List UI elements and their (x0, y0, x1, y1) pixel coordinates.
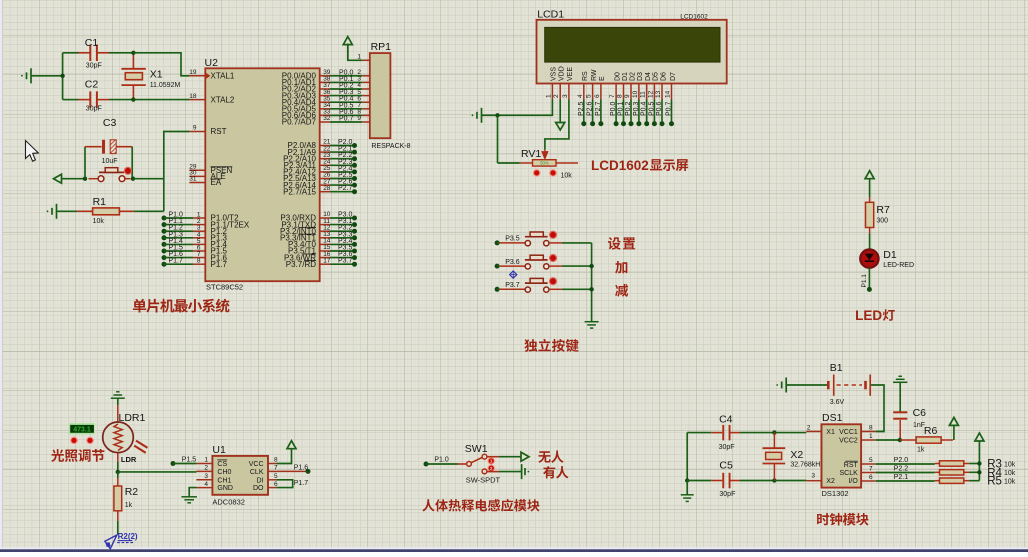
svg-text:P0.3: P0.3 (633, 101, 640, 116)
key button P3.5 (495, 240, 500, 245)
svg-text:5: 5 (274, 473, 278, 480)
pot RV1 interactive dots (533, 170, 540, 177)
wire P3.7 to key bus (562, 288, 592, 290)
svg-text:D5: D5 (653, 72, 660, 81)
resistor R1 (77, 210, 93, 212)
wire R1 to RST net (134, 210, 164, 212)
DS1 pin 1 VCC2 (861, 439, 876, 441)
adc U1 body (212, 456, 268, 495)
ground (battery) (785, 378, 787, 393)
svg-text:X2: X2 (826, 478, 835, 485)
U2 pin 23 P2.2/A10 with net label P2.2 (320, 158, 330, 160)
svg-text:P0.7: P0.7 (339, 116, 354, 123)
svg-text:SW-SPDT: SW-SPDT (466, 475, 501, 484)
svg-text:C3: C3 (103, 117, 117, 129)
svg-text:32.768kHz: 32.768kHz (790, 462, 824, 469)
svg-text:R6: R6 (924, 425, 938, 437)
capacitor C4 (687, 432, 711, 434)
svg-text:LCD1602: LCD1602 (680, 14, 708, 21)
U2 pin 35 P0.4/AD4 wire to RP1 pin 6 (320, 101, 330, 103)
U2 pin 19 XTAL1 (189, 75, 205, 77)
wire ground to C1/C2 branch (31, 75, 63, 77)
LCD wire net P0.4 (646, 100, 648, 124)
label light adjust (51, 449, 104, 462)
wire C5 to X2 node (740, 480, 774, 482)
overline PSEN (211, 166, 233, 168)
svg-text:6: 6 (869, 474, 873, 481)
ldr value display (69, 423, 95, 434)
wire C1 row (63, 52, 79, 54)
svg-text:XTAL1: XTAL1 (211, 72, 235, 81)
label plus key (615, 261, 627, 274)
U2 pin 11 P3.1 with net label P3.1 (320, 224, 330, 226)
LCD wire net P0.2 (630, 100, 632, 124)
svg-text:X2: X2 (790, 449, 803, 461)
ground (U1 GND) (189, 488, 196, 497)
svg-text:P3.7: P3.7 (505, 282, 520, 289)
wire D1 to P1.1 terminal (868, 268, 870, 290)
U2 pin 6 P1.5 with net label P1.5 (162, 249, 167, 254)
U2 pin 14 P3.4 with net label P3.4 (320, 243, 330, 245)
svg-text:LCD1602: LCD1602 (591, 158, 649, 173)
U2 pin 21 P2.0/A8 with net label P2.0 (320, 145, 330, 147)
svg-text:19: 19 (189, 69, 197, 76)
svg-text:13: 13 (655, 90, 662, 98)
svg-text:ADC0832: ADC0832 (212, 498, 245, 507)
svg-text:B1: B1 (830, 362, 843, 374)
U2 pin 30 ALE (189, 175, 205, 177)
svg-text:32: 32 (323, 115, 331, 122)
overline INT1 (299, 233, 316, 235)
svg-text:9: 9 (624, 94, 631, 98)
svg-text:10k: 10k (93, 218, 105, 225)
resistor R6 (900, 439, 916, 441)
U2 pin 13 P3.3 with net label P3.3 (320, 237, 330, 239)
svg-text:7: 7 (274, 465, 278, 472)
svg-text:10: 10 (632, 90, 639, 98)
svg-text:7: 7 (609, 94, 616, 98)
ldr light arrows (136, 441, 148, 448)
U2 pin 1 P1.0/T2 with net label P1.0 (162, 216, 167, 221)
overline WR (303, 253, 316, 255)
svg-text:8: 8 (197, 258, 201, 265)
svg-text:P1.7: P1.7 (169, 258, 184, 265)
svg-text:5: 5 (586, 94, 593, 98)
svg-text:28: 28 (323, 185, 331, 192)
node reset button right (131, 177, 135, 181)
svg-text:P3.7/RD: P3.7/RD (286, 260, 316, 269)
svg-text:X1: X1 (150, 69, 163, 81)
svg-text:P3.5: P3.5 (505, 236, 520, 243)
U1 pin 2 CH0 (196, 470, 212, 472)
mcu U2 body (205, 68, 319, 281)
U2 pin 18 XTAL2 (189, 99, 205, 101)
net P1.0 to SW1 (424, 462, 429, 467)
svg-text:C1: C1 (85, 37, 99, 49)
svg-text:30pF: 30pF (719, 491, 735, 498)
wire C4/C5 left vertical (686, 433, 688, 481)
resistor R4 (935, 471, 940, 473)
svg-text:P0.5: P0.5 (648, 101, 655, 116)
ldr adjust dots (71, 437, 78, 444)
U2 pin 37 P0.2/AD2 wire to RP1 pin 4 (320, 88, 330, 90)
node key bus row2 (589, 264, 593, 268)
button interactive dot (124, 167, 131, 174)
LCD wire net P0.3 (638, 100, 640, 124)
svg-text:11.0592M: 11.0592M (150, 82, 181, 89)
svg-text:LDR1: LDR1 (119, 412, 146, 424)
resistor pack RP1 body (370, 53, 391, 138)
svg-text:P0.1: P0.1 (618, 101, 625, 116)
mouse cursor (26, 141, 39, 162)
svg-text:1: 1 (204, 457, 208, 464)
U2 pin 38 P0.1/AD1 wire to RP1 pin 3 (320, 81, 330, 83)
svg-text:R1: R1 (93, 196, 107, 208)
overline INT0 (299, 227, 316, 229)
svg-text:DI: DI (257, 477, 264, 484)
power arrow (LED) (865, 171, 874, 179)
overline RD (304, 260, 316, 262)
svg-text:1k: 1k (125, 502, 133, 509)
U1 pin 5 DI (268, 479, 276, 481)
svg-text:U1: U1 (212, 444, 226, 456)
svg-text:D1: D1 (622, 72, 629, 81)
U1 pin 1 CS (196, 463, 212, 465)
U1 pin 7 CLK (268, 470, 276, 472)
U1 pin 8 VCC (268, 463, 276, 465)
DS1 pin 8 VCC1 (861, 431, 876, 433)
LCD wire net P2.7 (600, 100, 602, 124)
svg-text:1: 1 (869, 433, 873, 440)
svg-text:17: 17 (323, 257, 331, 264)
svg-text:6: 6 (594, 94, 601, 98)
svg-text:10k: 10k (1004, 470, 1016, 477)
svg-text:D4: D4 (645, 72, 652, 81)
LCD wire net P0.0 (615, 100, 617, 124)
svg-text:C5: C5 (719, 460, 733, 472)
power arrow (pullups) (975, 433, 984, 441)
svg-text:C2: C2 (85, 79, 99, 91)
svg-text:P1.6: P1.6 (294, 465, 309, 472)
svg-text:3.6V: 3.6V (830, 399, 845, 406)
svg-text:8: 8 (869, 424, 873, 431)
lcd LCD1 body (537, 20, 727, 84)
svg-text:3: 3 (204, 473, 208, 480)
wire C3 left vertical (84, 147, 86, 179)
wire SW1 bottom to ground (487, 471, 499, 473)
switch SW1 (458, 463, 467, 465)
ground (C5) (686, 481, 688, 495)
svg-text:10k: 10k (1004, 479, 1016, 486)
svg-text:P0.7: P0.7 (666, 101, 673, 116)
svg-text:6: 6 (274, 481, 278, 488)
ground (R1) (56, 204, 58, 219)
switch state dots (488, 458, 494, 464)
svg-text:4: 4 (204, 481, 208, 488)
capacitor C2 (79, 99, 91, 101)
label nobody (538, 451, 563, 463)
svg-text:CS: CS (217, 461, 227, 468)
svg-text:2: 2 (204, 465, 208, 472)
wire U1 DI/DO tie P1.7 (276, 480, 292, 488)
U1 pin 6 DO (268, 487, 276, 489)
overline CS (217, 459, 227, 461)
left window edge strip (0, 0, 3, 552)
svg-text:P2.7: P2.7 (338, 185, 353, 192)
svg-text:2: 2 (490, 466, 493, 471)
XTAL1 clock pin arrow (206, 73, 211, 79)
svg-text:VCC1: VCC1 (839, 429, 858, 436)
svg-text:VDD: VDD (559, 66, 566, 81)
ground (C6 top) (893, 381, 907, 383)
svg-text:1: 1 (490, 459, 493, 464)
wire U1 CLK to P1.6 (276, 470, 306, 472)
svg-text:2: 2 (553, 94, 560, 98)
U2 pin 7 P1.6 with net label P1.6 (162, 255, 167, 260)
LCD wire net P2.5 (583, 100, 585, 124)
svg-text:C4: C4 (719, 414, 733, 426)
svg-text:GND: GND (217, 485, 233, 492)
svg-text:RESPACK-8: RESPACK-8 (371, 143, 410, 150)
U2 pin 15 P3.5 with net label P3.5 (320, 250, 330, 252)
svg-text:P2.7/A15: P2.7/A15 (283, 187, 316, 196)
ground (keys) (585, 321, 599, 323)
svg-text:SCLK: SCLK (840, 470, 859, 477)
U2 pin 24 P2.3/A11 with net label P2.3 (320, 164, 330, 166)
svg-text:D6: D6 (660, 72, 667, 81)
bottom window border bar (0, 547, 1028, 549)
capacitor C1 (79, 52, 91, 54)
svg-text:LCD1: LCD1 (537, 9, 564, 21)
LCD wire net P2.6 (592, 100, 594, 124)
wire C1 to XTAL1 (109, 52, 133, 54)
U1 pin 3 CH1 (196, 479, 212, 481)
key button P3.6 (495, 264, 500, 269)
ground (LDR top) (111, 397, 125, 399)
U2 pin 39 P0.0/AD0 wire to RP1 pin 2 (320, 75, 330, 77)
probe marker R2(2) (105, 535, 117, 549)
svg-text:U2: U2 (205, 57, 219, 69)
resistor R2 (117, 478, 119, 486)
power arrow (U1 VCC) (287, 441, 296, 449)
resistor R5 (935, 480, 940, 482)
LCD wire net P0.5 (653, 100, 655, 124)
svg-text:E: E (599, 76, 606, 81)
reset push button (89, 178, 99, 180)
svg-text:RST: RST (211, 127, 227, 136)
svg-text:10k: 10k (1004, 461, 1016, 468)
svg-text:P2.0: P2.0 (894, 457, 909, 464)
power arrow (reset, pointing left) (54, 174, 62, 183)
svg-text:P0.7/AD7: P0.7/AD7 (282, 118, 317, 127)
svg-text:1k: 1k (917, 447, 925, 454)
DS1 pin 5 wire net P2.0 (861, 463, 876, 465)
svg-text:C6: C6 (913, 407, 927, 419)
node X1 top (131, 51, 135, 55)
svg-text:P2.2: P2.2 (894, 466, 909, 473)
svg-text:P1.7: P1.7 (294, 480, 309, 487)
svg-text:DS1302: DS1302 (822, 489, 849, 498)
svg-text:R7: R7 (876, 204, 890, 216)
wire R7 to D1 (869, 234, 871, 250)
svg-text:10uF: 10uF (102, 158, 118, 165)
label independent keys (524, 339, 578, 352)
crystal X1 (132, 55, 134, 69)
svg-text:P3.6: P3.6 (505, 259, 520, 266)
svg-text:LED: LED (855, 308, 882, 323)
svg-text:50%: 50% (540, 161, 549, 166)
svg-text:D1: D1 (883, 249, 897, 261)
power arrow (RP1) (343, 37, 352, 45)
svg-text:RP1: RP1 (371, 41, 392, 53)
ground (SW1, pointing right) (521, 464, 523, 479)
pot RV1 (497, 115, 499, 163)
ldr LDR1 (117, 405, 119, 421)
svg-text:VCC2: VCC2 (839, 438, 858, 445)
svg-text:P1.7: P1.7 (211, 260, 228, 269)
U2 pin 27 P2.6/A14 with net label P2.6 (320, 184, 330, 186)
svg-text:CH1: CH1 (217, 477, 231, 484)
svg-text:RW: RW (591, 69, 598, 81)
svg-text:473.1: 473.1 (73, 426, 91, 433)
LCD wire net P0.7 (671, 100, 673, 124)
svg-text:DS1: DS1 (822, 412, 843, 424)
svg-text:P2.1: P2.1 (894, 474, 909, 481)
wire VSS to ground (498, 100, 553, 116)
U2 pin 33 P0.6/AD6 wire to RP1 pin 8 (320, 114, 330, 116)
led D1 (860, 249, 878, 267)
svg-text:STC89C52: STC89C52 (206, 283, 243, 292)
wire P3.5 to key bus (562, 242, 592, 244)
wire LDR to CH0 and R2 (117, 462, 119, 472)
svg-text:9: 9 (193, 125, 197, 132)
wire C2 row (63, 99, 79, 101)
svg-text:EA: EA (211, 178, 222, 187)
marker (blue origin) (510, 271, 517, 278)
svg-text:P1.0: P1.0 (434, 457, 449, 464)
svg-text:31: 31 (189, 176, 197, 183)
svg-text:LED-RED: LED-RED (883, 262, 914, 269)
U1 pin 4 GND (196, 487, 212, 489)
net P1.5 to U1 CS (171, 461, 176, 466)
label minimal system (133, 299, 230, 313)
svg-text:2: 2 (807, 425, 811, 432)
svg-text:SW1: SW1 (465, 443, 488, 455)
rtc DS1 body (822, 424, 862, 487)
svg-text:VEE: VEE (567, 67, 574, 81)
DS1 pin 6 wire net P2.1 (861, 480, 876, 482)
wire VCC2 to R6 (876, 439, 900, 441)
capacitor C5 (685, 478, 689, 482)
LCD wire net P0.1 (623, 100, 625, 124)
U2 pin 3 P1.2 with net label P1.2 (162, 229, 167, 234)
svg-text:P1.5: P1.5 (182, 457, 197, 464)
svg-text:CLK: CLK (250, 469, 264, 476)
svg-text:VSS: VSS (551, 67, 558, 81)
wire C2 to XTAL2 (109, 99, 133, 101)
svg-text:RV1: RV1 (521, 148, 541, 160)
wire R2 down (probe) (117, 521, 119, 535)
power arrow (R6) (949, 417, 958, 425)
U2 pin 10 P3.0 with net label P3.0 (320, 217, 330, 219)
node junction left branch (60, 74, 64, 78)
resistor R7 (869, 197, 871, 202)
wire C1/C2 left vertical (62, 53, 64, 100)
wire battery to VCC1 (871, 385, 884, 432)
svg-text:LDR: LDR (121, 455, 137, 464)
node VSS/RV1 (495, 113, 499, 117)
svg-text:P0.6: P0.6 (656, 101, 663, 116)
svg-text:P3.7: P3.7 (338, 258, 353, 265)
svg-text:R2: R2 (125, 486, 139, 498)
svg-text:P0.4: P0.4 (641, 101, 648, 116)
wire power to RP1 pin 1 (348, 44, 362, 61)
svg-text:P0.2: P0.2 (625, 101, 632, 116)
svg-text:R2(2): R2(2) (118, 532, 138, 541)
node X1 bottom (131, 97, 135, 101)
wire P3.6 to key bus (562, 265, 592, 267)
svg-text:300: 300 (876, 218, 888, 225)
svg-text:P2.6: P2.6 (587, 101, 594, 116)
ground (LCD VSS) (481, 108, 483, 123)
wire C4 to X1 node (740, 432, 774, 434)
svg-text:11: 11 (640, 91, 647, 98)
label minus key (615, 284, 628, 297)
svg-text:30pF: 30pF (86, 63, 102, 70)
svg-text:5: 5 (869, 457, 873, 464)
wire VEE to RV1 wiper (545, 100, 569, 150)
U2 pin 22 P2.1/A9 with net label P2.1 (320, 151, 330, 153)
svg-text:XTAL2: XTAL2 (211, 95, 235, 104)
U2 pin 32 P0.7/AD7 wire to RP1 pin 9 (320, 121, 330, 123)
label clock module (817, 513, 869, 526)
resistor R3 (935, 463, 940, 465)
svg-text:P2.5: P2.5 (578, 101, 585, 116)
svg-text:30pF: 30pF (719, 444, 735, 451)
svg-text:1: 1 (357, 53, 361, 60)
U2 pin 28 P2.7/A15 with net label P2.7 (320, 191, 330, 193)
U2 pin 26 P2.5/A13 with net label P2.5 (320, 178, 330, 180)
label pir module (422, 499, 539, 512)
svg-text:14: 14 (665, 90, 672, 98)
lcd screen (545, 27, 720, 62)
svg-text:P0.0: P0.0 (610, 101, 617, 116)
svg-text:9: 9 (357, 115, 361, 122)
U2 pin 2 P1.1/T2EX with net label P1.1 (162, 222, 167, 227)
ground arrow (LCD VDD) (559, 100, 561, 123)
svg-text:7: 7 (869, 465, 873, 472)
U2 pin 34 P0.5/AD5 wire to RP1 pin 7 (320, 108, 330, 110)
U2 pin 17 P3.7 with net label P3.7 (320, 263, 330, 265)
svg-text:D3: D3 (637, 72, 644, 81)
crystal X2 (773, 433, 775, 449)
svg-text:8: 8 (274, 457, 278, 464)
label set key (608, 237, 635, 250)
svg-text:VCC: VCC (249, 461, 264, 468)
U2 pin 12 P3.2 with net label P3.2 (320, 230, 330, 232)
svg-text:D0: D0 (614, 72, 621, 81)
label somebody (543, 466, 568, 478)
capacitor C3 (polarized) (85, 146, 102, 148)
svg-text:10k: 10k (561, 173, 573, 180)
LCD wire net P0.6 (661, 100, 663, 124)
svg-text:D7: D7 (670, 72, 677, 81)
U2 pin 4 P1.3 with net label P1.3 (162, 235, 167, 240)
wire SW1 top to power arrow (487, 456, 499, 458)
svg-text:30pF: 30pF (86, 106, 102, 113)
svg-text:8: 8 (617, 94, 624, 98)
U2 pin 5 P1.4 with net label P1.4 (162, 242, 167, 247)
